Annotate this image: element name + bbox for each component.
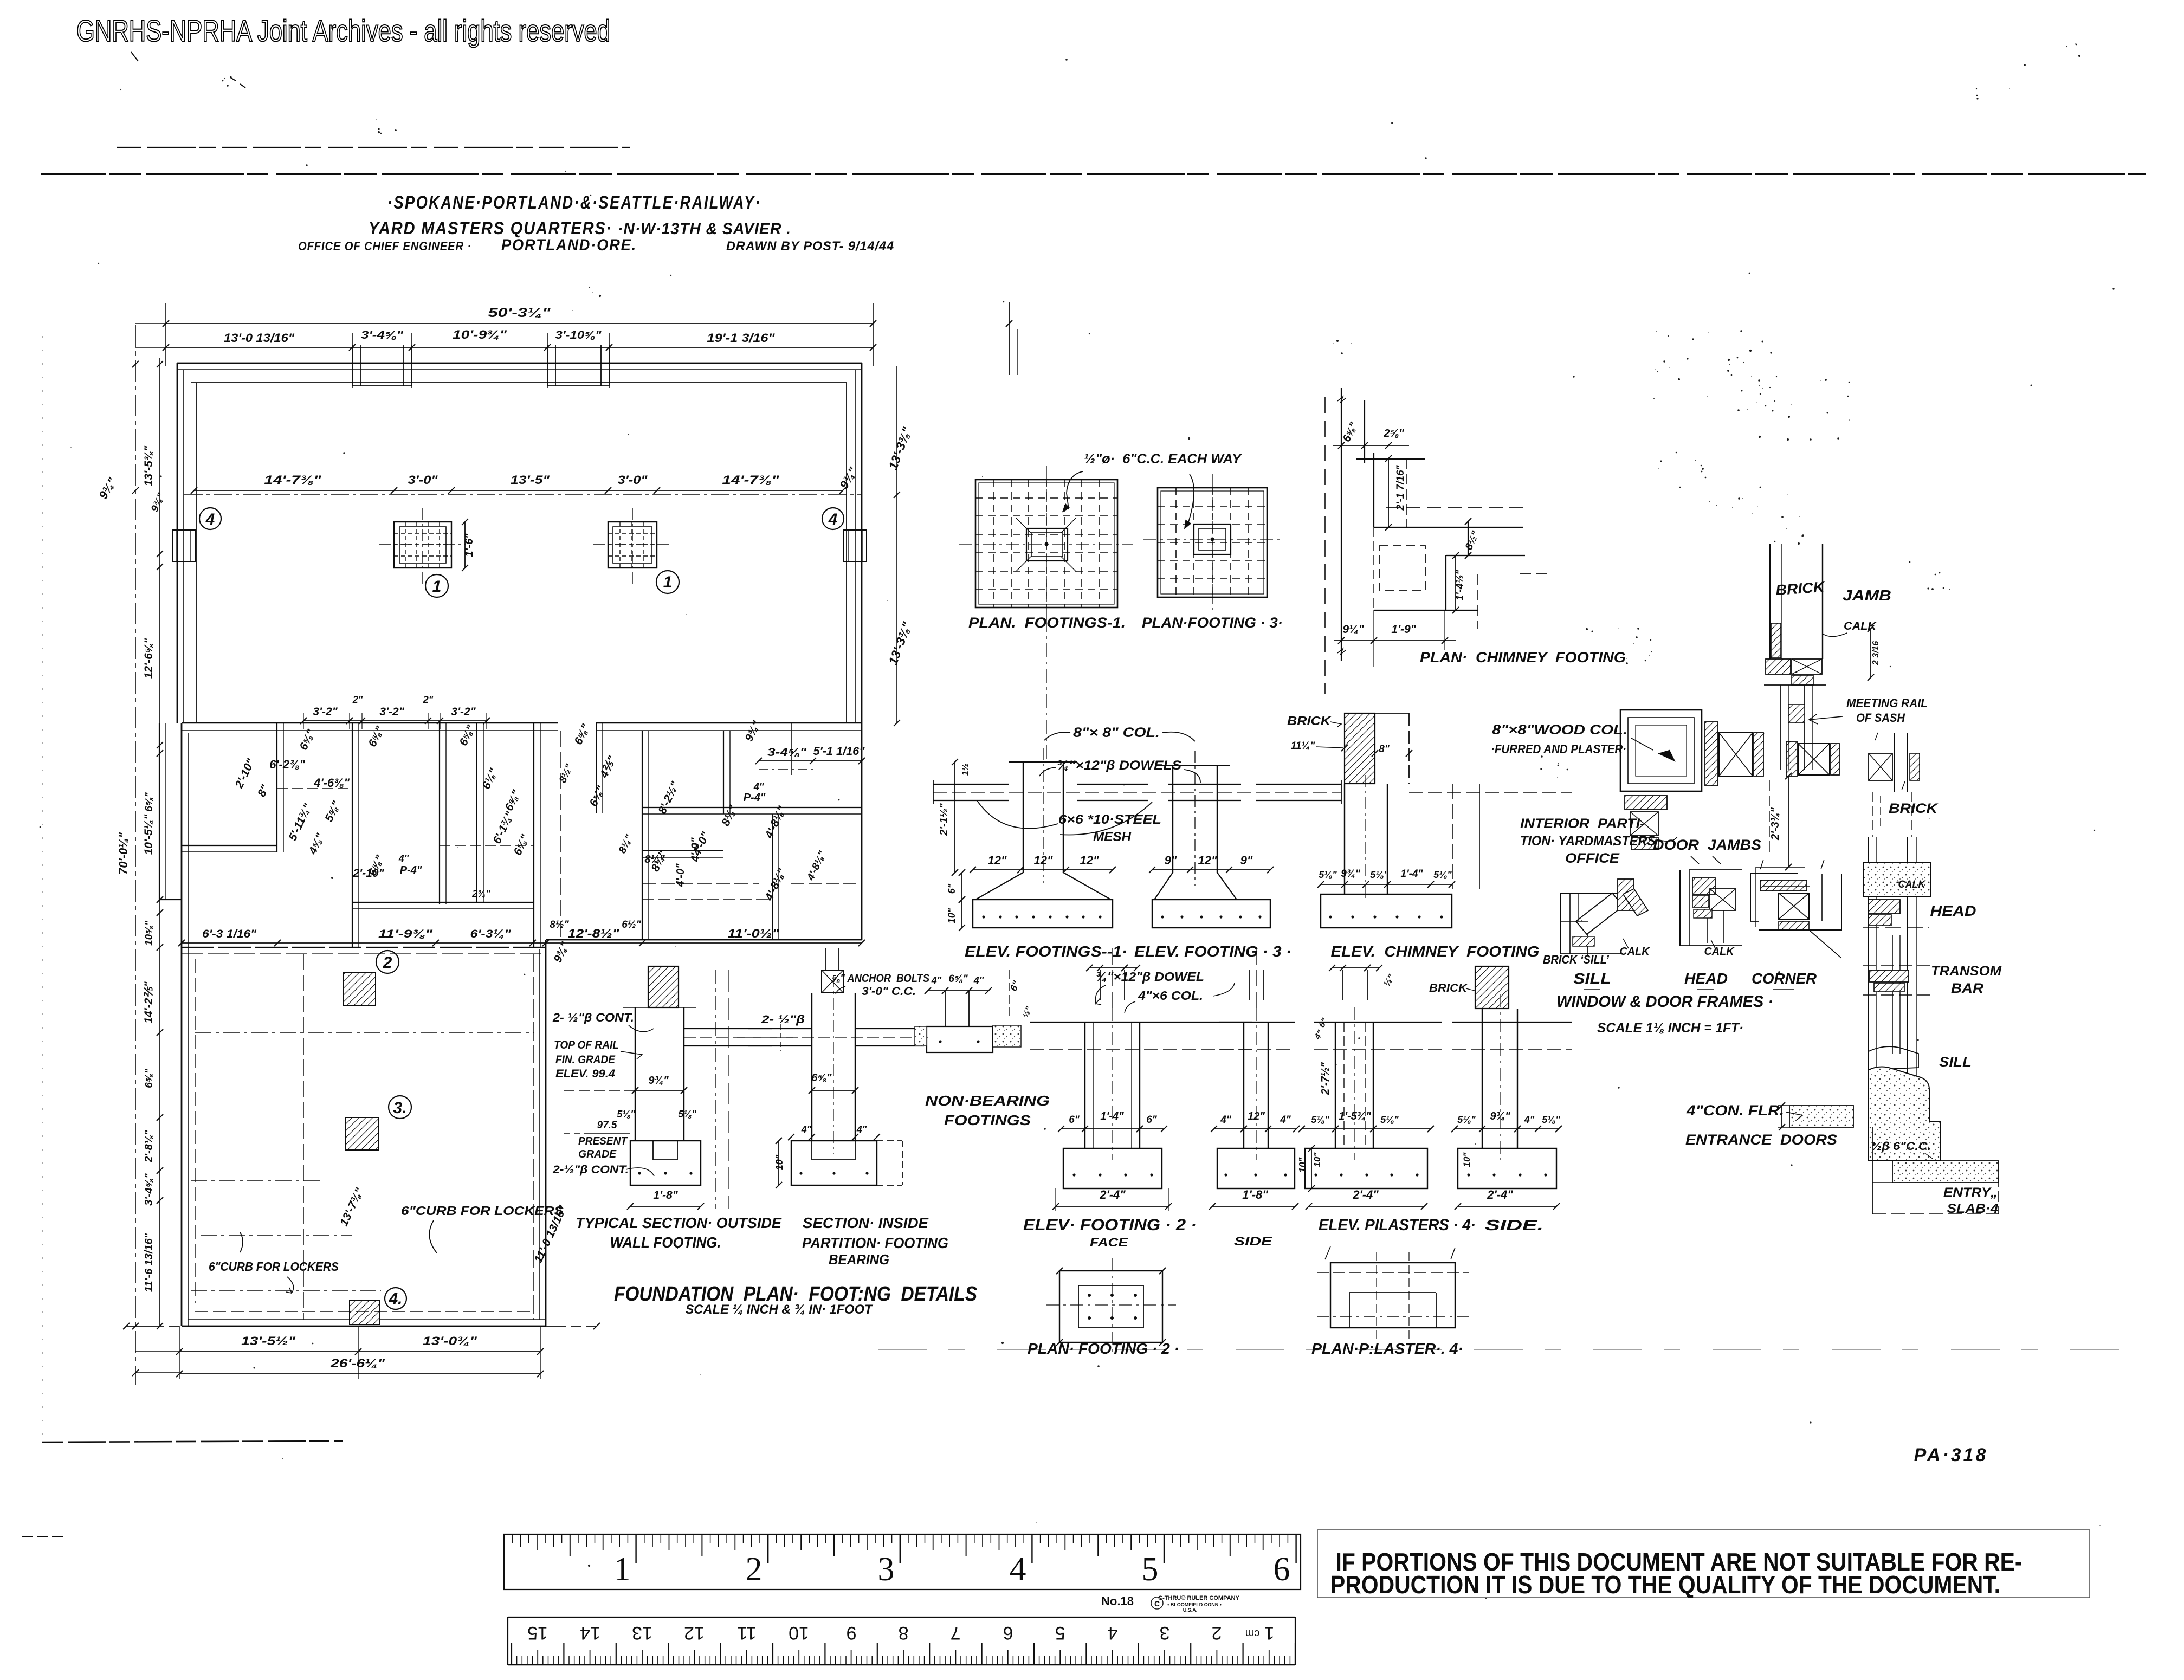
svg-text:1'-5¾": 1'-5¾"	[1339, 1110, 1371, 1122]
elev footing 2 top stub	[1100, 970, 1101, 1000]
corner detail assembly	[1750, 874, 1751, 921]
floor slab band right of column	[684, 1028, 772, 1029]
svg-text:10: 10	[789, 1623, 809, 1643]
svg-text:6⅝": 6⅝"	[811, 1072, 832, 1084]
svg-text:cm: cm	[1245, 1627, 1260, 1639]
svg-text:8: 8	[899, 1623, 909, 1643]
svg-text:9": 9"	[1165, 854, 1177, 867]
svg-text:12": 12"	[1248, 1110, 1265, 1122]
elev footing 2 column	[1084, 1022, 1085, 1148]
entry slab	[1892, 1161, 1999, 1183]
svg-text:2: 2	[746, 1551, 763, 1588]
svg-text:3.: 3.	[393, 1099, 406, 1117]
svg-text:PRESENT: PRESENT	[578, 1135, 628, 1147]
svg-text:1: 1	[663, 573, 673, 591]
svg-text:⅝" ANCHOR BOLTS: ⅝" ANCHOR BOLTS	[832, 972, 929, 985]
svg-text:3: 3	[878, 1551, 895, 1588]
left bottom extension	[135, 1372, 179, 1373]
hatched footing small b	[346, 1117, 378, 1150]
left annex wall	[159, 723, 160, 900]
scan streak line full width	[41, 173, 2146, 175]
svg-text:BRICK: BRICK	[1287, 714, 1332, 728]
svg-text:TRANSOM: TRANSOM	[1931, 964, 2002, 979]
sash section below jamb	[1780, 685, 1781, 770]
interior wall horizontal mid room	[352, 902, 534, 903]
svg-text:10": 10"	[1297, 1157, 1308, 1173]
elev chimney column body	[1344, 784, 1345, 894]
svg-text:YARD MASTERS QUARTERS·: YARD MASTERS QUARTERS·	[369, 218, 612, 238]
svg-text:SILL: SILL	[1939, 1055, 1972, 1070]
tall window section verticals	[1868, 837, 1869, 1084]
svg-text:HEAD: HEAD	[1930, 903, 1976, 919]
svg-text:2'-4": 2'-4"	[1352, 1188, 1379, 1201]
svg-text:6'-3¼": 6'-3¼"	[470, 928, 512, 940]
circled 4 left	[199, 508, 221, 529]
vertical dash dot lines near section	[715, 970, 716, 1209]
typical outside wall column	[635, 1007, 636, 1141]
svg-text:13'-0 13/16": 13'-0 13/16"	[224, 331, 295, 345]
svg-text:6": 6"	[1146, 1114, 1158, 1126]
plan wall right lower	[545, 940, 547, 1326]
svg-text:12": 12"	[988, 854, 1007, 867]
svg-text:½β 6"C.C.: ½β 6"C.C.	[1871, 1140, 1931, 1153]
svg-text:4": 4"	[398, 853, 409, 864]
column footing 3 hatched	[608, 522, 657, 568]
svg-text:1: 1	[614, 1551, 631, 1588]
svg-text:19'-1 3/16": 19'-1 3/16"	[707, 331, 776, 345]
svg-text:TYPICAL SECTION· OUTSIDE: TYPICAL SECTION· OUTSIDE	[576, 1214, 782, 1231]
svg-text:PARTITION· FOOTING: PARTITION· FOOTING	[802, 1235, 948, 1251]
scan streak bottom left	[42, 1441, 343, 1442]
svg-text:5⅛": 5⅛"	[678, 1109, 696, 1120]
svg-text:3'-0": 3'-0"	[408, 473, 438, 487]
svg-text:HEAD: HEAD	[1684, 970, 1728, 987]
pilaster side column	[1482, 1009, 1483, 1148]
chimney plan inner flue dashed square	[1379, 546, 1425, 590]
stamp border	[1317, 1530, 2090, 1598]
chimney plan dashed extents	[1386, 507, 1525, 508]
svg-text:6": 6"	[1069, 1114, 1080, 1126]
chimney plan left wall	[1341, 388, 1342, 661]
elev footing 2 wall band	[1030, 1022, 1252, 1023]
interior wall horizontal left room	[182, 845, 277, 846]
plan outer wall left lower	[181, 723, 183, 1326]
svg-text:4: 4	[1108, 1623, 1118, 1643]
svg-text:3'-4⅝": 3'-4⅝"	[361, 329, 404, 341]
inch ruler ticks	[504, 1534, 1296, 1563]
sill detail extra lines	[1578, 893, 1579, 921]
svg-text:1'-4½": 1'-4½"	[1455, 570, 1466, 601]
svg-text:BAR: BAR	[1951, 981, 1983, 996]
interior wall horizontal right room	[642, 807, 862, 808]
head detail extra pieces	[1694, 909, 1712, 918]
svg-text:CALK: CALK	[1620, 946, 1651, 958]
faint fold line right	[878, 1349, 2141, 1350]
svg-text:SIDE: SIDE	[1234, 1235, 1273, 1248]
elev pilasters 4 column	[1335, 1022, 1336, 1148]
svg-text:1: 1	[432, 578, 442, 596]
svg-text:1'-9": 1'-9"	[1391, 623, 1416, 636]
interior wall vertical f	[723, 731, 724, 814]
curb for lockers dash lines lower	[191, 1180, 323, 1181]
plan bottom inner dash	[195, 1311, 534, 1312]
elev chimney footing base	[1321, 894, 1452, 928]
wood col plan detail square	[1620, 710, 1702, 791]
interior wall vertical a	[276, 723, 277, 852]
plan outer wall bottom	[182, 1326, 546, 1327]
chimney plan outline	[1364, 400, 1365, 463]
svg-text:U.S.A.: U.S.A.	[1183, 1607, 1198, 1613]
svg-text:10⅝": 10⅝"	[144, 920, 155, 946]
svg-text:PLAN· FOOTING · 2 ·: PLAN· FOOTING · 2 ·	[1028, 1340, 1179, 1357]
circled 1 left	[425, 574, 448, 597]
footing 1 center line down to elevation	[1046, 618, 1047, 759]
svg-text:4'-0": 4'-0"	[675, 863, 687, 888]
svg-text:INTERIOR PARTI-: INTERIOR PARTI-	[1520, 816, 1645, 831]
plan footing 2	[1059, 1271, 1162, 1342]
svg-text:PORTLAND·ORE.: PORTLAND·ORE.	[501, 236, 637, 254]
svg-text:2": 2"	[423, 694, 434, 705]
plan top right sheet edge marks	[1009, 302, 1010, 375]
svg-text:2'-8⅛": 2'-8⅛"	[143, 1130, 155, 1163]
elev chimney brick column hatched	[1345, 713, 1375, 784]
svg-text:3'-10⅝": 3'-10⅝"	[555, 329, 602, 341]
svg-text:SCALE ¼ INCH & ¾ IN· 1FOOT: SCALE ¼ INCH & ¾ IN· 1FOOT	[686, 1302, 874, 1317]
svg-text:PA·318: PA·318	[1914, 1445, 1988, 1465]
svg-text:10": 10"	[1312, 1152, 1322, 1167]
plan wall bottom of right block	[546, 939, 862, 941]
head frame pieces	[1869, 900, 1900, 914]
svg-text:P-4": P-4"	[744, 792, 766, 804]
svg-text:6: 6	[1274, 1551, 1290, 1588]
svg-text:TION· YARDMASTERS: TION· YARDMASTERS	[1520, 833, 1656, 849]
svg-text:WINDOW & DOOR FRAMES ·: WINDOW & DOOR FRAMES ·	[1556, 993, 1773, 1011]
svg-text:6⅝": 6⅝"	[144, 1068, 155, 1088]
svg-text:‘CALK: ‘CALK	[1896, 879, 1926, 890]
elev pilasters 4 wall band	[1314, 1022, 1442, 1023]
band extra walls	[476, 723, 477, 902]
svg-text:No.18: No.18	[1101, 1594, 1134, 1608]
svg-text:ELEV· FOOTING · 2 ·: ELEV· FOOTING · 2 ·	[1023, 1216, 1197, 1234]
svg-text:5'-1 1/16": 5'-1 1/16"	[813, 745, 865, 758]
svg-text:8"× 8" COL.: 8"× 8" COL.	[1073, 725, 1160, 740]
svg-text:·N·W·13TH & SAVIER .: ·N·W·13TH & SAVIER .	[618, 220, 791, 238]
svg-text:FACE: FACE	[1090, 1236, 1129, 1249]
circled 4 right	[822, 508, 844, 529]
svg-text:GNRHS-NPRHA Joint Archives - a: GNRHS-NPRHA Joint Archives - all rights …	[76, 14, 610, 48]
svg-text:9: 9	[847, 1623, 857, 1643]
svg-text:4: 4	[1010, 1551, 1026, 1588]
svg-text:14'-2⅖": 14'-2⅖"	[143, 981, 155, 1023]
jamb head section	[1766, 659, 1791, 674]
svg-text:PRODUCTION IT IS DUE TO THE QU: PRODUCTION IT IS DUE TO THE QUALITY OF T…	[1330, 1571, 2000, 1599]
svg-text:CALK: CALK	[1704, 946, 1735, 958]
svg-text:OFFICE OF CHIEF ENGINEER ·: OFFICE OF CHIEF ENGINEER ·	[298, 239, 471, 253]
svg-text:6½": 6½"	[622, 919, 641, 931]
svg-text:11¼": 11¼"	[1291, 740, 1316, 752]
plan outer wall left	[177, 363, 178, 723]
svg-text:11'-6 13/16": 11'-6 13/16"	[143, 1233, 155, 1292]
svg-text:OFFICE: OFFICE	[1565, 851, 1620, 866]
svg-text:FIN. GRADE: FIN. GRADE	[555, 1054, 616, 1066]
tall section upper dashed	[1872, 792, 1873, 837]
bay window mullions top wall	[352, 345, 353, 386]
svg-text:4: 4	[828, 511, 838, 528]
interior wall top of locker room	[182, 947, 546, 948]
svg-text:CALK: CALK	[1844, 620, 1877, 632]
svg-text:12": 12"	[1198, 854, 1217, 867]
pilaster left wall	[172, 530, 195, 561]
svg-text:3'-2": 3'-2"	[379, 706, 404, 718]
corner outer border	[1756, 867, 1805, 927]
cm ruler ticks bottom	[512, 1643, 1295, 1665]
svg-text:8": 8"	[1379, 744, 1390, 755]
svg-text:ELEV. FOOTING · 3 ·: ELEV. FOOTING · 3 ·	[1134, 943, 1291, 960]
svg-text:·FURRED AND PLASTER·: ·FURRED AND PLASTER·	[1491, 742, 1626, 756]
hatched footing small a	[343, 973, 376, 1005]
svg-text:6×6 *10·STEEL: 6×6 *10·STEEL	[1058, 812, 1161, 827]
svg-text:BRICK ‘SILL’: BRICK ‘SILL’	[1543, 953, 1610, 966]
svg-text:5⅛": 5⅛"	[1457, 1114, 1476, 1125]
svg-text:ENTRY„: ENTRY„	[1943, 1185, 1998, 1200]
svg-text:CORNER: CORNER	[1752, 970, 1817, 987]
inside partition column	[811, 993, 812, 1141]
svg-text:1'-8": 1'-8"	[653, 1189, 678, 1201]
svg-text:11'-0½": 11'-0½"	[728, 927, 780, 940]
svg-text:3'-2": 3'-2"	[451, 706, 476, 718]
svg-text:• BLOOMFIELD CONN •: • BLOOMFIELD CONN •	[1167, 1602, 1222, 1607]
svg-text:OF SASH: OF SASH	[1856, 711, 1905, 725]
rail dashed grade lines	[564, 1090, 635, 1091]
door jamb assembly right	[1786, 741, 1797, 776]
svg-text:2⅝": 2⅝"	[1383, 428, 1404, 440]
svg-text:2: 2	[1212, 1623, 1222, 1643]
svg-text:4: 4	[205, 511, 215, 528]
lower right block interior walls	[642, 850, 723, 851]
svg-text:4"×6 COL.: 4"×6 COL.	[1138, 988, 1203, 1003]
door jamb assembly left	[1705, 722, 1718, 786]
svg-text:10'-9¾": 10'-9¾"	[453, 328, 507, 341]
svg-text:4": 4"	[973, 975, 984, 986]
svg-text:9¾": 9¾"	[1490, 1110, 1510, 1122]
circled 1 right	[656, 571, 679, 593]
svg-text:4"CON. FLR.: 4"CON. FLR.	[1686, 1102, 1784, 1119]
svg-text:2'-7½": 2'-7½"	[1320, 1062, 1332, 1095]
pilaster side brick hatch top	[1475, 966, 1509, 1009]
svg-text:7: 7	[951, 1623, 961, 1643]
svg-text:4": 4"	[931, 975, 942, 986]
cm ruler body	[508, 1617, 1295, 1618]
svg-text:9¾": 9¾"	[648, 1075, 669, 1087]
svg-text:GRADE: GRADE	[578, 1148, 617, 1160]
elev footing 2 footing	[1063, 1148, 1162, 1188]
circled 2	[376, 951, 399, 973]
door jambs dim lines	[1769, 780, 1770, 856]
svg-text:ELEV. FOOTINGS--1·: ELEV. FOOTINGS--1·	[965, 943, 1127, 960]
corner dim marks	[1760, 860, 1824, 869]
svg-text:2'-4": 2'-4"	[1487, 1188, 1513, 1201]
svg-text:½"ø· 6"C.C. EACH WAY: ½"ø· 6"C.C. EACH WAY	[1084, 451, 1242, 467]
svg-text:13'-5⅜": 13'-5⅜"	[143, 445, 155, 487]
svg-text:15: 15	[527, 1623, 548, 1643]
interior wall band horizontal	[182, 722, 558, 723]
svg-text:2'-3¾": 2'-3¾"	[1769, 807, 1781, 841]
plan outer wall right	[861, 363, 863, 940]
svg-text:8¼": 8¼"	[644, 854, 665, 865]
elev pilasters 4 footing	[1305, 1148, 1427, 1188]
elev footing 3 column	[1172, 766, 1173, 873]
svg-text:DRAWN BY POST- 9/14/44: DRAWN BY POST- 9/14/44	[726, 239, 894, 254]
svg-text:6⅝": 6⅝"	[948, 973, 968, 985]
plan bottom dimension rows	[126, 1326, 597, 1327]
svg-text:70'-0¼": 70'-0¼"	[117, 832, 130, 875]
svg-text:3: 3	[1160, 1623, 1170, 1643]
svg-text:ELEV. 99.4: ELEV. 99.4	[555, 1068, 615, 1080]
svg-text:12'-6⅝": 12'-6⅝"	[143, 638, 155, 679]
svg-text:WALL FOOTING.: WALL FOOTING.	[610, 1234, 721, 1251]
pilaster right wall	[844, 530, 867, 561]
footing 2 side column	[1243, 1022, 1244, 1148]
svg-text:SECTION· INSIDE: SECTION· INSIDE	[803, 1214, 929, 1231]
svg-text:6: 6	[1003, 1623, 1013, 1643]
svg-text:3'-0" C.C.: 3'-0" C.C.	[862, 985, 916, 998]
plan footings 1 grid square	[975, 480, 1117, 608]
hatched footing bottom wall	[350, 1301, 379, 1324]
svg-text:3'-4⅝": 3'-4⅝"	[143, 1173, 155, 1206]
svg-text:5⅛": 5⅛"	[1311, 1114, 1329, 1125]
svg-text:5: 5	[1142, 1551, 1159, 1588]
floor bands both sides	[748, 1028, 812, 1029]
svg-text:BRICK: BRICK	[1429, 982, 1468, 994]
concrete floor 4in	[1789, 1106, 1853, 1127]
svg-text:1: 1	[1264, 1623, 1275, 1643]
column grid center line	[184, 494, 862, 495]
svg-text:8"×8"WOOD COL.: 8"×8"WOOD COL.	[1492, 722, 1627, 738]
svg-text:ELEV. PILASTERS · 4·: ELEV. PILASTERS · 4·	[1319, 1216, 1476, 1234]
svg-text:14'-7⅜": 14'-7⅜"	[264, 473, 322, 487]
scan streak line upper	[117, 147, 630, 148]
svg-text:2": 2"	[352, 694, 363, 705]
svg-text:BRICK: BRICK	[1889, 801, 1939, 816]
elev footing 1 column	[1023, 762, 1024, 873]
svg-text:9¾": 9¾"	[1341, 868, 1360, 880]
svg-text:14'-7⅜": 14'-7⅜"	[722, 473, 780, 487]
svg-text:3-4⅝": 3-4⅝"	[767, 746, 807, 759]
svg-text:DOOR JAMBS: DOOR JAMBS	[1653, 837, 1761, 853]
svg-text:4": 4"	[1280, 1114, 1291, 1126]
svg-text:4": 4"	[753, 781, 764, 792]
svg-text:13'-5½": 13'-5½"	[241, 1334, 296, 1348]
svg-text:13: 13	[632, 1623, 652, 1643]
svg-text:11: 11	[737, 1623, 756, 1643]
pilaster side footing	[1458, 1148, 1556, 1188]
svg-text:4": 4"	[856, 1124, 867, 1135]
svg-text:2: 2	[383, 954, 392, 972]
column footing 1 hatched	[394, 522, 451, 568]
svg-text:PLAN·FOOTING · 3·: PLAN·FOOTING · 3·	[1142, 615, 1283, 631]
svg-text:PLAN. FOOTINGS-1.: PLAN. FOOTINGS-1.	[968, 615, 1126, 631]
svg-text:NON·BEARING: NON·BEARING	[925, 1093, 1050, 1109]
head lintel concrete	[1863, 863, 1931, 896]
svg-text:4": 4"	[1220, 1114, 1232, 1126]
svg-text:PLAN·P:LASTER·. 4·: PLAN·P:LASTER·. 4·	[1311, 1340, 1463, 1357]
elev chimney right wall section lines	[1452, 784, 1453, 889]
svg-text:5⅛": 5⅛"	[1370, 869, 1388, 880]
svg-text:97.5: 97.5	[597, 1120, 617, 1131]
footing 2 side footing	[1217, 1148, 1295, 1188]
svg-text:3'-0": 3'-0"	[618, 473, 648, 487]
svg-text:SCALE 1⅛ INCH = 1FT·: SCALE 1⅛ INCH = 1FT·	[1597, 1020, 1743, 1036]
interior wall vertical c	[439, 723, 440, 904]
svg-text:SILL: SILL	[1573, 970, 1611, 987]
interior wall vertical d	[533, 723, 534, 947]
plan top extension lines	[165, 303, 166, 366]
plan footing 3 grid square	[1158, 488, 1267, 597]
svg-text:8½": 8½"	[550, 919, 569, 931]
svg-text:P-4": P-4"	[400, 864, 422, 876]
circled 4 bottom	[385, 1288, 406, 1309]
svg-text:5⅛": 5⅛"	[1433, 869, 1452, 880]
svg-text:2 3/16: 2 3/16	[1871, 641, 1881, 666]
svg-text:SIDE.: SIDE.	[1485, 1217, 1543, 1233]
elev pilasters 4 top stub	[1342, 970, 1343, 1000]
top left stray marks	[131, 52, 138, 61]
svg-text:4": 4"	[801, 1124, 812, 1135]
svg-text:·SPOKANE·PORTLAND·&·SEATTLE·RA: ·SPOKANE·PORTLAND·&·SEATTLE·RAILWAY·	[387, 192, 761, 213]
svg-text:6"CURB FOR LOCKERS: 6"CURB FOR LOCKERS	[209, 1259, 339, 1274]
svg-text:5⅛": 5⅛"	[1380, 1114, 1399, 1125]
sill to slab concrete mass	[1869, 1067, 1940, 1161]
svg-text:5: 5	[1055, 1623, 1065, 1643]
svg-text:MEETING RAIL: MEETING RAIL	[1846, 696, 1928, 710]
svg-text:2'-1 7/16": 2'-1 7/16"	[1395, 464, 1406, 511]
inch ruler body	[504, 1534, 1301, 1589]
curb for lockers dash lines upper	[195, 1032, 534, 1033]
svg-text:13'-5": 13'-5"	[511, 473, 550, 487]
inside partition footing	[791, 1141, 877, 1185]
svg-text:6'-3 1/16": 6'-3 1/16"	[202, 928, 257, 940]
svg-text:1'-4": 1'-4"	[1401, 868, 1424, 880]
svg-text:12": 12"	[1034, 854, 1053, 867]
svg-text:6": 6"	[946, 883, 957, 894]
hatch blocks below wood col	[1625, 796, 1667, 810]
transom bar	[1870, 970, 1909, 982]
head detail assembly	[1679, 870, 1681, 946]
svg-text:26'-6¼": 26'-6¼"	[330, 1356, 385, 1370]
svg-text:1½: 1½	[961, 764, 970, 776]
svg-text:10": 10"	[946, 908, 957, 923]
svg-text:12: 12	[684, 1623, 705, 1643]
circled 3	[389, 1096, 411, 1119]
svg-text:11'-9⅜": 11'-9⅜"	[378, 928, 433, 940]
typical outside wall section hatched post	[648, 966, 679, 1007]
footing 1 dim 1-6	[464, 522, 466, 568]
svg-text:2'-1½": 2'-1½"	[938, 803, 950, 836]
svg-text:4": 4"	[1524, 1114, 1535, 1125]
svg-text:9¼": 9¼"	[1342, 623, 1364, 636]
svg-text:ELEV. CHIMNEY FOOTING: ELEV. CHIMNEY FOOTING	[1331, 943, 1540, 960]
right rotated dim labels	[896, 366, 897, 723]
svg-text:14: 14	[580, 1623, 600, 1643]
svg-text:2- ½"β: 2- ½"β	[761, 1013, 805, 1026]
svg-text:1'-6": 1'-6"	[463, 533, 475, 557]
svg-text:3'-2": 3'-2"	[313, 706, 338, 718]
svg-text:50'-3¼": 50'-3¼"	[488, 306, 551, 320]
inside partition section anchor bolt	[822, 970, 843, 993]
svg-text:5⅛": 5⅛"	[1319, 869, 1337, 880]
chimney plan dashed grid line	[1324, 397, 1326, 694]
elev footing 3 trapezoid	[1154, 873, 1173, 900]
